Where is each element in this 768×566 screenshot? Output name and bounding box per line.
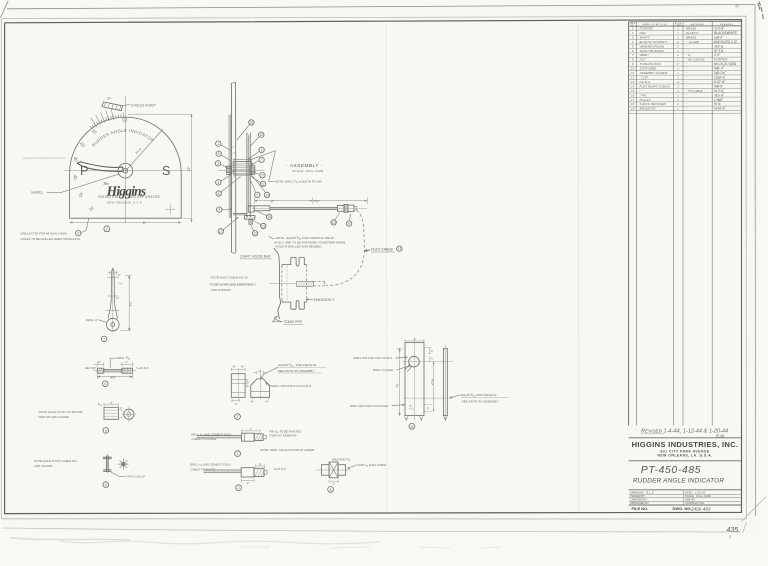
balloon 7 detail — [101, 336, 107, 342]
diagonal tick near page number — [743, 522, 747, 533]
svg-text:¼Ø·4˝: ¼Ø·4˝ — [714, 35, 724, 39]
balloon 15 — [267, 214, 272, 219]
end sleeve — [348, 205, 354, 212]
rod end coupling — [337, 205, 344, 211]
detail5 knurled end — [97, 368, 104, 373]
leader balloon8 — [350, 214, 351, 222]
small hole circle at zero mark — [123, 118, 127, 122]
right equip leader — [450, 395, 460, 399]
sheet right edge — [754, 4, 757, 516]
leader 9 — [248, 151, 259, 159]
dial horizontal centerline — [64, 169, 192, 171]
balloon 5 — [216, 151, 221, 156]
bottom dimension line — [70, 221, 182, 223]
small plate with cross — [249, 220, 253, 225]
torn edge marks top right — [758, 2, 763, 20]
svg-text:2: 2 — [676, 44, 679, 48]
svg-text:TAP ½-20 N.F.: TAP ½-20 N.F. — [127, 475, 146, 479]
detail7 centerline — [112, 268, 114, 333]
svg-text:TO BE WORN BHD EMERGENCY: TO BE WORN BHD EMERGENCY — [210, 282, 258, 286]
leader balloon9 to plate — [81, 218, 89, 232]
plate vertical centerline — [413, 338, 415, 420]
svg-text:13: 13 — [262, 224, 266, 228]
top-left corner fold diagonal — [1, 1, 9, 18]
balloon 2 under dial — [104, 226, 110, 232]
leader 2 — [222, 208, 232, 210]
rod centerline — [252, 207, 367, 209]
svg-text:NOTE: HOLE TO FIT ON ROUND: NOTE: HOLE TO FIT ON ROUND — [39, 410, 83, 414]
detail5 threaded end — [122, 368, 133, 373]
balloon 10 on rod — [331, 220, 336, 225]
sheave body bottom castellated profile — [282, 300, 307, 309]
svg-text:2400-483: 2400-483 — [690, 506, 711, 511]
leader 3b — [249, 178, 256, 193]
balloon 10 upper right — [259, 132, 264, 137]
svg-text:HOLE IS DRILLED AND REAMED: HOLE IS DRILLED AND REAMED — [275, 244, 322, 248]
right dimension extension top — [128, 113, 192, 115]
svg-text:⅟16·⅞˝: ⅟16·⅞˝ — [714, 93, 725, 97]
detail8 centerline — [316, 469, 352, 471]
svg-text:9: 9 — [261, 148, 263, 152]
leader 3 — [221, 164, 228, 168]
svg-text:6": 6" — [143, 220, 147, 225]
right clamp bolt hex — [250, 166, 255, 174]
svg-text:15: 15 — [631, 89, 635, 93]
detail6 mid dims — [120, 410, 124, 419]
leader 14 — [252, 176, 266, 193]
faint pencil smudge bottom left — [10, 538, 130, 540]
pin hatched block — [297, 281, 314, 286]
svg-text:BRASS: BRASS — [686, 27, 696, 31]
svg-text:˝ ⅛: ˝ ⅛ — [686, 53, 691, 57]
standpipe left wall wavy line — [274, 248, 281, 319]
detail3 rod — [204, 469, 242, 471]
svg-text:16: 16 — [631, 93, 635, 97]
svg-text:8: 8 — [330, 488, 332, 492]
flex cable label leader arrow — [365, 249, 371, 251]
leader 13 — [253, 221, 261, 225]
balloon 4 — [216, 180, 221, 185]
svg-text:INCORPORATED: INCORPORATED — [130, 195, 161, 199]
svg-text:F.H.M.S: F.H.M.S — [640, 80, 651, 84]
svg-text:p.: p. — [728, 534, 732, 539]
flex cable dashed curve — [326, 210, 365, 285]
45 degree radius line — [125, 130, 162, 172]
svg-text:AND STATION: AND STATION — [210, 288, 232, 292]
table column lines extending to title block — [628, 22, 630, 426]
parts table frame — [629, 20, 742, 22]
svg-text:DRILL #28 FOR 8-32 F.H.M.S.: DRILL #28 FOR 8-32 F.H.M.S. — [271, 384, 312, 388]
balloon 9 right — [259, 147, 264, 152]
stand pipe leader arrow — [273, 316, 283, 322]
balloon 11 right — [260, 181, 265, 186]
end tip — [354, 207, 357, 211]
shaft inside tube — [248, 135, 250, 207]
balloon 7 right — [259, 157, 264, 162]
right vertical dimension — [433, 362, 435, 412]
rod fitting at bracket — [254, 206, 270, 211]
svg-text:SHAFT: SHAFT — [640, 35, 651, 39]
detail2 bottom dim — [231, 399, 239, 402]
detail7 hub circle — [107, 318, 120, 331]
balloon 8 on rod — [346, 221, 351, 226]
balloon 12 — [252, 231, 257, 236]
svg-text:2: 2 — [105, 227, 108, 231]
svg-text:STOP WIRE: STOP WIRE — [640, 67, 658, 71]
svg-text:⅝-18 N.F.: ⅝-18 N.F. — [274, 467, 287, 471]
svg-text:10: 10 — [260, 133, 264, 137]
svg-text:DATE:: DATE: — [685, 490, 693, 494]
svg-text:5 HOLES Ø 9/64": 5 HOLES Ø 9/64" — [131, 103, 157, 107]
knurled nut — [344, 204, 348, 212]
detail2 top dim — [231, 368, 245, 371]
svg-text:DRAWN BY:: DRAWN BY: — [630, 490, 645, 494]
svg-text:PT-450-485: PT-450-485 — [641, 464, 701, 476]
svg-text:POINTER: POINTER — [640, 27, 654, 31]
fan ticks under flag — [91, 109, 114, 127]
leader drill fhms — [396, 357, 408, 359]
svg-text:17: 17 — [631, 98, 635, 102]
balloon 8 detail — [328, 487, 334, 493]
svg-text:FOR ¹⁄₁₆ FLEX CABLE: FOR ¹⁄₁₆ FLEX CABLE — [358, 463, 387, 467]
detail4 tip — [263, 436, 266, 439]
svg-text:˝ PIN: ˝ PIN — [640, 93, 648, 97]
detail6 crosshair — [122, 407, 137, 422]
sheet bottom edge — [2, 528, 741, 532]
svg-text:2: 2 — [217, 208, 220, 212]
leader 17 — [223, 218, 238, 230]
detail3 tip — [264, 470, 267, 474]
detail3 top dim — [256, 464, 265, 467]
svg-text:PART #5 AND CALKED: PART #5 AND CALKED — [39, 415, 70, 419]
svg-text:HEX NUT: HEX NUT — [85, 366, 97, 370]
svg-text:11: 11 — [261, 182, 265, 186]
clamp block with hatch lines — [234, 162, 251, 175]
svg-text:¾Ø·2¾˝: ¾Ø·2¾˝ — [714, 71, 727, 75]
svg-text:WIRE ˝: WIRE ˝ — [640, 53, 651, 57]
svg-text:1: 1 — [217, 142, 219, 146]
dim arrows — [254, 200, 367, 202]
clamp top flange — [234, 159, 251, 161]
svg-text:⁵⁄₃₂: ⁵⁄₃₂ — [119, 281, 123, 285]
detail4 top dim — [242, 429, 261, 432]
svg-text:19: 19 — [631, 107, 635, 111]
DETAILS-LEFT — [33, 268, 149, 488]
svg-text:2: 2 — [631, 31, 634, 35]
svg-text:⅛DRILL: ⅛DRILL — [31, 191, 43, 195]
svg-text:NOTE - EQUIP ⁵⁄₃₂ FOR ASSEM #2: NOTE - EQUIP ⁵⁄₃₂ FOR ASSEM #2 PIECE — [276, 236, 335, 240]
pointer needle — [77, 162, 123, 172]
svg-text:SCALE: FULL SIZE: SCALE: FULL SIZE — [292, 169, 324, 173]
svg-text:1·⅝Ø˝: 1·⅝Ø˝ — [714, 98, 724, 102]
svg-text:5: 5 — [104, 382, 106, 386]
detail6 top dim — [104, 403, 118, 407]
svg-text:BRASS PIN: BRASS PIN — [640, 107, 657, 111]
lower bracket shelf — [233, 213, 247, 215]
detail2 drill leader — [266, 383, 271, 386]
big leader flag triangle — [248, 151, 275, 182]
DETAILS-MID — [190, 363, 386, 492]
svg-text:13: 13 — [631, 80, 635, 84]
svg-text:12: 12 — [253, 232, 257, 236]
svg-text:7: 7 — [103, 337, 105, 341]
svg-text:PULLEY: PULLEY — [640, 98, 653, 102]
svg-text:4-: 4- — [735, 4, 740, 10]
DETAIL-11 — [350, 337, 509, 429]
svg-text:EQUIP ⁵⁄₃₂ - FOR PIECE #3: EQUIP ⁵⁄₃₂ - FOR PIECE #3 — [279, 363, 317, 367]
svg-text:9: 9 — [105, 483, 107, 487]
indicator tube right of plank — [246, 133, 248, 218]
faint marks at very bottom — [240, 547, 500, 548]
svg-text:⅝˝·1¾: ⅝˝·1¾ — [714, 49, 724, 53]
leader 4 — [221, 175, 232, 182]
svg-text:⅜Ø·6': ⅜Ø·6' — [714, 84, 723, 88]
svg-text:6: 6 — [105, 429, 107, 433]
svg-text:DRILL ¹⁄₁₆ AND CEMENT FLEX: DRILL ¹⁄₁₆ AND CEMENT FLEX — [190, 463, 231, 467]
right small top dims — [424, 348, 432, 362]
leader drill hole — [397, 366, 411, 370]
svg-text:16: 16 — [250, 121, 254, 125]
DIAL — [21, 96, 193, 241]
svg-text:FLEX SHAFT CASING: FLEX SHAFT CASING — [640, 84, 671, 88]
svg-text:2¹³⁄₁₆: 2¹³⁄₁₆ — [430, 378, 434, 386]
balloon 16 top — [249, 120, 254, 125]
balloon 13 — [261, 223, 266, 228]
svg-text:S: S — [162, 164, 170, 178]
svg-text:3: 3 — [256, 193, 258, 197]
svg-text:¾·3·⅛˝: ¾·3·⅛˝ — [714, 27, 725, 31]
svg-text:6: 6 — [218, 192, 220, 196]
svg-text:˝ HD CASTLE: ˝ HD CASTLE — [686, 58, 706, 62]
svg-text:R.L.S.: R.L.S. — [646, 490, 655, 494]
detail9 tap leader — [111, 472, 127, 477]
balloon 3b lower — [255, 192, 260, 197]
leader 11 — [251, 176, 261, 183]
svg-text:BRASS: BRASS — [686, 35, 696, 39]
detail2 front top dim — [254, 371, 267, 374]
leader 5 — [221, 155, 233, 163]
leader 10 — [250, 137, 259, 147]
svg-text:EQUIP ⁵⁄₃₂ FOR PIECE #2: EQUIP ⁵⁄₃₂ FOR PIECE #2 — [461, 393, 497, 397]
leader drill fhole — [392, 404, 404, 406]
signature grid lines — [629, 493, 742, 495]
left clamp bolt hex — [227, 166, 232, 174]
balloon 14 lower — [264, 192, 269, 197]
detail8 center hub with cross — [329, 462, 338, 478]
svg-text:8: 8 — [261, 174, 263, 178]
svg-text:10: 10 — [332, 221, 336, 225]
detail2 equip leader — [261, 367, 278, 378]
detail2 right small dims — [245, 379, 249, 387]
svg-text:NEW ORLEANS, U.S.A.: NEW ORLEANS, U.S.A. — [107, 201, 143, 205]
svg-text:3'·6˝: 3'·6˝ — [714, 53, 721, 57]
svg-text:11: 11 — [631, 71, 634, 75]
standpipe left wall inner dashed — [281, 266, 283, 301]
sheave body top castellated profile — [282, 257, 307, 266]
lower horizontal centerline — [404, 397, 454, 399]
svg-text:12: 12 — [631, 76, 635, 80]
svg-text:HOLES TO BE DRILLED WHEN INSTA: HOLES TO BE DRILLED WHEN INSTALLING — [21, 237, 81, 241]
line above file no — [629, 504, 742, 506]
svg-text:NEW ORLEANS, LA. U.S.A.: NEW ORLEANS, LA. U.S.A. — [657, 454, 712, 458]
svg-text:№16·⅞˝: №16·⅞˝ — [714, 107, 727, 111]
STANDPIPE — [210, 248, 336, 324]
svg-text:PLASTIC: PLASTIC — [686, 31, 699, 35]
detail4 body — [242, 433, 255, 441]
balloon 1 — [216, 141, 221, 146]
svg-text:14: 14 — [631, 84, 635, 88]
batten strip left of plank — [228, 115, 230, 219]
detail8 bottom dim — [329, 480, 338, 483]
svg-text:13: 13 — [398, 247, 402, 251]
svg-text:- ASSEMBLY -: - ASSEMBLY - — [286, 163, 323, 168]
balloon 3 detail — [236, 485, 242, 491]
svg-text:EMERGENCY: EMERGENCY — [314, 298, 335, 302]
line under address — [629, 460, 742, 462]
bottom small dims — [409, 405, 433, 412]
svg-text:9: 9 — [77, 232, 79, 236]
line under title — [629, 489, 742, 491]
svg-text:TRACED BY:: TRACED BY: — [630, 494, 646, 498]
svg-text:SHAFT BUSHING: SHAFT BUSHING — [640, 49, 665, 53]
balloon 8 right — [260, 173, 265, 178]
detail8 leader — [348, 465, 357, 469]
dial plate outline — [70, 117, 182, 218]
svg-text:4: 4 — [217, 181, 219, 185]
detail8 right flange — [338, 465, 346, 476]
dimension line above rod — [254, 200, 313, 202]
svg-text:ELASTIC STOPNUT: ELASTIC STOPNUT — [640, 40, 669, 44]
svg-text:WASHER (PLAIN): WASHER (PLAIN) — [640, 44, 665, 48]
svg-text:DRILL ⁵⁄₃₂: DRILL ⁵⁄₃₂ — [117, 356, 131, 360]
svg-text:No.19-20-¾DIA: No.19-20-¾DIA — [714, 62, 736, 66]
sheet top edge — [7, 4, 755, 8]
standpipe centerline — [270, 283, 298, 285]
balloon 9 under dial — [76, 231, 81, 236]
emergency label leader — [306, 299, 313, 301]
svg-text:FILE NO.: FILE NO. — [632, 506, 649, 511]
leader 6 — [221, 177, 241, 193]
hole horizontal centerline — [403, 361, 454, 363]
detail5 rod — [104, 369, 122, 371]
svg-text:˝ TO CABLE: ˝ TO CABLE — [686, 89, 704, 93]
balloon 6 — [216, 191, 221, 196]
svg-text:NOTE: DRILL ⁵⁄₁₆ HOLE IN PC #1: NOTE: DRILL ⁵⁄₁₆ HOLE IN PC #10 — [275, 180, 322, 184]
svg-text:˝ CUP: ˝ CUP — [640, 76, 648, 80]
balloon 13 flex cable — [397, 246, 402, 251]
svg-text:DRILL #28 FOR 8-32 F.HOLE: DRILL #28 FOR 8-32 F.HOLE — [350, 404, 388, 408]
svg-text:8: 8 — [348, 222, 350, 226]
bracket boss — [248, 206, 254, 212]
detail2 front view tombstone — [251, 379, 270, 397]
svg-text:DWG. NO.: DWG. NO. — [673, 506, 692, 511]
detail9 tee bracket — [103, 456, 112, 473]
leader 7 — [251, 161, 259, 165]
MISC — [10, 522, 747, 548]
svg-text:INDUSTRIES: INDUSTRIES — [98, 195, 121, 199]
leader 12 — [250, 224, 253, 231]
detail2 side view rect — [231, 374, 245, 398]
svg-text:DRILL ⅛": DRILL ⅛" — [86, 318, 99, 322]
dial vertical centerline — [124, 96, 126, 223]
dim extension ticks — [254, 197, 367, 204]
svg-text:7: 7 — [261, 158, 263, 162]
side view strip — [443, 349, 447, 416]
section marks under views — [405, 417, 448, 421]
balloon 17 left bottom — [218, 229, 223, 234]
svg-text:½-20 N.F.: ½-20 N.F. — [714, 58, 728, 62]
svg-text:2: 2 — [676, 102, 679, 106]
svg-text:FULL SIZE: FULL SIZE — [696, 494, 712, 498]
balloon 2 detail — [235, 414, 241, 420]
detail6 end view circle — [124, 409, 134, 419]
svg-text:TORSION ROD: TORSION ROD — [640, 62, 662, 66]
svg-text:DIAL: DIAL — [640, 31, 647, 35]
detail9 tee centerline — [106, 454, 108, 475]
svg-text:18: 18 — [631, 102, 635, 106]
left vertical dimension — [399, 349, 401, 416]
svg-text:11: 11 — [410, 425, 414, 429]
svg-text:ANCHORS 2-32: ANCHORS 2-32 — [713, 40, 737, 44]
pin hidden lines dashed to right — [313, 281, 324, 283]
detail6 block — [104, 407, 118, 419]
clamp centerline — [218, 169, 265, 171]
svg-text:2: 2 — [676, 58, 679, 62]
svg-text:SCALE:: SCALE: — [685, 494, 695, 498]
svg-text:CHECKED BY:: CHECKED BY: — [630, 498, 648, 502]
detail5 centerline — [94, 370, 137, 372]
scale tick marks — [90, 113, 124, 129]
svg-text:4: 4 — [237, 452, 239, 456]
svg-text:13": 13" — [187, 166, 191, 172]
balloon 9 detail — [103, 482, 109, 488]
svg-text:MACHINE ⁵⁄₃₂: MACHINE ⁵⁄₃₂ — [332, 458, 351, 462]
svg-text:ASSEMBLY SCREW: ASSEMBLY SCREW — [639, 71, 669, 75]
balloon 2 left lower — [217, 207, 222, 212]
leader 8 — [252, 171, 260, 174]
svg-text:NOTE: DRILL HOLE FOR PIN AT AS: NOTE: DRILL HOLE FOR PIN AT ASSEM — [260, 448, 315, 452]
detail2 side centerline — [238, 370, 240, 400]
detail7 pointer body vertical — [108, 269, 117, 319]
detail7 hub inner — [111, 323, 115, 327]
svg-text:DRILL&CTSK FOR #8 OVAL H'D(4): DRILL&CTSK FOR #8 OVAL H'D(4) — [21, 232, 67, 236]
bottom-right corner cut — [742, 497, 767, 522]
detail5 top dims — [94, 362, 133, 367]
PARTS-TABLE — [629, 21, 742, 425]
svg-text:SEE NOTE ON ASSEMBLY: SEE NOTE ON ASSEMBLY — [278, 369, 316, 373]
top dimension — [405, 339, 424, 342]
svg-text:DRILL #28 FOR 8-32 F.H.M.S.: DRILL #28 FOR 8-32 F.H.M.S. — [354, 356, 393, 360]
balloon 4 detail — [235, 451, 241, 457]
svg-text:˝ ·10-32Ø: ˝ ·10-32Ø — [686, 40, 700, 44]
svg-text:4⅞": 4⅞" — [110, 376, 117, 380]
svg-text:5: 5 — [218, 152, 220, 156]
right vertical dimension line — [191, 114, 193, 222]
plank edge hatch — [232, 146, 236, 178]
svg-text:15: 15 — [267, 215, 271, 219]
detail7 drill leader — [99, 320, 107, 323]
hub inner circle — [123, 168, 128, 173]
sheave right edge dashed — [306, 265, 308, 303]
svg-text:NOTE-FLEX CABLE #12 IS: NOTE-FLEX CABLE #12 IS — [211, 276, 248, 280]
detail4 rod — [197, 435, 242, 437]
svg-text:⅛Ø· 4˝: ⅛Ø· 4˝ — [714, 67, 725, 71]
TITLE-BLOCK — [629, 429, 742, 512]
svg-text:8-32·⅝˝: 8-32·⅝˝ — [714, 80, 726, 84]
svg-text:3: 3 — [217, 162, 219, 166]
detail9 spoked end view — [118, 459, 129, 470]
svg-text:17: 17 — [219, 230, 223, 234]
